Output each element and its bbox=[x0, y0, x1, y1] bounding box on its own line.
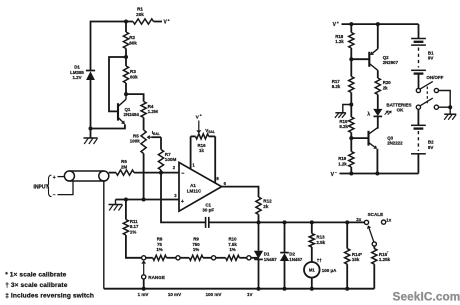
svg-text:2k: 2k bbox=[263, 204, 269, 209]
svg-text:1 mV: 1 mV bbox=[138, 292, 149, 297]
svg-text:−: − bbox=[335, 170, 337, 174]
ground G3 bbox=[335, 112, 346, 114]
wire V- rail bbox=[340, 173, 419, 175]
wire RANGE to bottom rail bbox=[143, 279, 145, 289]
svg-text:−: − bbox=[181, 171, 184, 177]
diode D1 1N457 bbox=[258, 222, 260, 250]
resistor R19 8.2k bbox=[350, 105, 352, 118]
transistor Q3 2N2222 bbox=[367, 131, 369, 146]
wire top rail left bbox=[91, 22, 134, 67]
wire ground stub bbox=[343, 105, 352, 113]
node O D1 on rail bbox=[257, 287, 261, 291]
potentiometer R5 100k IBAL bbox=[141, 130, 146, 154]
wire R5 bottom to noninverting line bbox=[143, 154, 145, 200]
svg-text:10 mV: 10 mV bbox=[168, 292, 181, 297]
svg-text:–: – bbox=[53, 193, 56, 199]
svg-text:+: + bbox=[168, 19, 170, 23]
wire switch commons to ground bbox=[438, 91, 450, 108]
meter M1 100 uA bbox=[304, 262, 320, 278]
LED arrows bbox=[385, 112, 387, 114]
svg-text:††: †† bbox=[317, 258, 322, 263]
wire center conductor bbox=[109, 172, 116, 174]
scale switch blade bbox=[369, 228, 374, 242]
wire R2 to node B bbox=[125, 49, 127, 58]
svg-text:60k: 60k bbox=[130, 75, 138, 80]
svg-text:‡ Includes reversing switch: ‡ Includes reversing switch bbox=[5, 293, 94, 300]
svg-text:60k: 60k bbox=[129, 41, 137, 46]
node I junction D2 bbox=[283, 220, 287, 224]
ground G1 bbox=[84, 137, 98, 139]
node J junction R13 bbox=[310, 220, 314, 224]
node R Q2 emitter top bbox=[376, 22, 380, 26]
svg-text:SeekIC.com: SeekIC.com bbox=[393, 290, 460, 304]
svg-text:1N457: 1N457 bbox=[264, 257, 277, 262]
wire R12 bottom bbox=[258, 215, 260, 223]
node P D2 on rail bbox=[283, 287, 287, 291]
node H junction R12/D1 bbox=[257, 220, 261, 224]
node F junction R11 on pin3 line bbox=[124, 198, 128, 202]
svg-text:1N457: 1N457 bbox=[289, 257, 302, 262]
wire Q1 base loop bbox=[109, 57, 126, 111]
wire node C to R4 bbox=[126, 94, 144, 101]
svg-text:R1: R1 bbox=[137, 7, 143, 12]
balance pot R16 1k bbox=[191, 135, 196, 137]
svg-text:INPUT: INPUT bbox=[34, 184, 49, 190]
pin 8 stub bbox=[214, 136, 216, 183]
wire R6 to inverting input pin 2 bbox=[134, 172, 179, 174]
resistor R17 8.2k bbox=[350, 59, 352, 76]
node S junction R18/R17/Q2 base bbox=[349, 57, 353, 61]
svg-text:A1: A1 bbox=[190, 183, 196, 188]
wire LED to Q3 collector bbox=[376, 127, 378, 130]
svg-text:1%: 1% bbox=[229, 247, 235, 252]
svg-text:R12: R12 bbox=[263, 199, 272, 204]
wire string segment bbox=[146, 257, 153, 259]
SCALE 2x contact bbox=[364, 220, 368, 224]
bottom rail wire bbox=[104, 288, 375, 290]
diode D1 LM385 1.2V zener bbox=[90, 66, 92, 71]
wire R11 to range string bbox=[126, 235, 142, 258]
svg-text:M1: M1 bbox=[309, 268, 315, 273]
svg-text:9V: 9V bbox=[428, 56, 434, 61]
resistor R13 2.5k bbox=[311, 222, 313, 233]
svg-text:1%: 1% bbox=[156, 247, 162, 252]
range tap 1mV contact bbox=[142, 256, 146, 260]
switch S1 pole 2 bbox=[416, 105, 420, 109]
node C junction R3/R4/Q1-collector bbox=[124, 92, 128, 96]
battery B1 9V bbox=[418, 24, 420, 38]
svg-text:† 3× scale calibrate: † 3× scale calibrate bbox=[5, 282, 68, 289]
wire R13 to meter bbox=[311, 247, 313, 262]
wire shield to bottom rail bbox=[103, 181, 105, 289]
node A junction R1/R2 bbox=[124, 20, 128, 24]
wire feedback from inverting node bbox=[161, 173, 206, 223]
svg-text:+: + bbox=[181, 199, 184, 205]
svg-text:1.2M: 1.2M bbox=[148, 109, 158, 114]
wire meter to rail bbox=[311, 278, 313, 289]
range tap 10mV contact bbox=[176, 256, 180, 260]
svg-text:1%: 1% bbox=[193, 247, 199, 252]
RANGE wiper arrow bbox=[143, 264, 145, 275]
range tap 100mV contact bbox=[212, 256, 216, 260]
svg-text:2k: 2k bbox=[383, 85, 388, 90]
svg-text:9V: 9V bbox=[428, 145, 434, 150]
resistor R3 bbox=[125, 57, 127, 66]
wire R15 to rail corner bbox=[373, 264, 375, 289]
svg-text:100 µA: 100 µA bbox=[322, 268, 337, 273]
svg-text:8.2k: 8.2k bbox=[332, 84, 341, 89]
node Q R18 top bbox=[349, 22, 353, 26]
svg-text:1.25k: 1.25k bbox=[379, 257, 391, 262]
node D junction zener/emitter bbox=[89, 127, 93, 131]
svg-text:+: + bbox=[200, 113, 202, 117]
scale wiper pivot bbox=[372, 242, 376, 246]
wire output bbox=[222, 187, 259, 197]
resistor R8 75 1% bbox=[153, 255, 167, 260]
svg-text:1x: 1x bbox=[386, 218, 392, 223]
svg-text:1%: 1% bbox=[130, 229, 136, 234]
svg-text:2N2907: 2N2907 bbox=[383, 60, 399, 65]
wire battery top rail bbox=[342, 23, 419, 25]
svg-text:R13: R13 bbox=[316, 235, 325, 240]
wire Q3 emitter to V- rail bbox=[376, 149, 378, 174]
node W R21 on rail bbox=[349, 172, 353, 176]
wire R11 top lead bbox=[125, 200, 127, 220]
resistor R2 bbox=[123, 32, 128, 49]
wire Q2 emitter to rail bbox=[377, 24, 379, 49]
wire R4 to R5 bbox=[143, 118, 145, 131]
svg-text:100M: 100M bbox=[165, 157, 177, 162]
wire Q1 emitter to ground rail bbox=[91, 124, 125, 128]
RANGE wiper contact bbox=[142, 275, 146, 279]
resistor R7 100M bbox=[158, 150, 163, 171]
switch gang dashed link bbox=[426, 87, 428, 104]
svg-text:SCALE: SCALE bbox=[368, 212, 384, 217]
node B junction R2/R3/Q1-base-loop bbox=[124, 55, 128, 59]
SCALE 1x contact bbox=[382, 220, 386, 224]
svg-text:OK: OK bbox=[397, 108, 405, 113]
svg-text:* 1× scale calibrate: * 1× scale calibrate bbox=[5, 272, 66, 279]
svg-text:100 mV: 100 mV bbox=[206, 292, 222, 297]
resistor R1 bbox=[133, 19, 154, 24]
svg-text:LM11C: LM11C bbox=[187, 189, 202, 194]
svg-text:2M: 2M bbox=[121, 164, 128, 169]
node M meter on rail bbox=[310, 287, 314, 291]
diode D2 1N457 bbox=[284, 222, 286, 252]
resistor R18 1.2k bbox=[350, 24, 352, 32]
resistor R4 bbox=[141, 102, 146, 118]
svg-text:20k: 20k bbox=[136, 12, 144, 17]
op-amp A1 LM11C bbox=[179, 162, 222, 211]
node N R14 on rail bbox=[345, 287, 349, 291]
svg-text:1.2k: 1.2k bbox=[335, 39, 344, 44]
svg-text:R3: R3 bbox=[130, 69, 136, 74]
node U Q3 base bbox=[349, 136, 353, 140]
resistor R12 2k bbox=[256, 197, 261, 215]
capacitor C1 30 pF bbox=[205, 217, 207, 228]
wire input minus to shield bbox=[58, 181, 74, 195]
pin 1 stub bbox=[190, 136, 192, 169]
resistor R14* 15k bbox=[346, 222, 348, 248]
svg-text:2.5k: 2.5k bbox=[316, 240, 325, 245]
wire R5 wiper to R7 bbox=[160, 137, 162, 149]
wire C1 to output node line bbox=[209, 221, 366, 223]
range tap 1V contact bbox=[247, 256, 251, 260]
resistor R20 2k bbox=[375, 78, 380, 95]
node T ground tap bbox=[349, 103, 353, 107]
svg-text:R4: R4 bbox=[148, 104, 154, 109]
wire Q2 collector to R20 bbox=[377, 70, 379, 78]
resistor R15 1.25k bbox=[373, 246, 375, 249]
svg-text:2x: 2x bbox=[356, 217, 362, 222]
wire noninverting line pin 3 bbox=[116, 199, 180, 201]
svg-text:2N2222: 2N2222 bbox=[387, 141, 403, 146]
resistor R10 7.5k 1% bbox=[216, 257, 226, 259]
resistor R11 8.17 1% bbox=[123, 220, 128, 236]
svg-text:ON/OFF: ON/OFF bbox=[426, 75, 443, 80]
resistor R6 2M bbox=[116, 170, 134, 175]
svg-text:R2: R2 bbox=[129, 35, 135, 40]
svg-text:8.2k: 8.2k bbox=[339, 124, 348, 129]
wire 1V tap to D1 cathode bbox=[251, 257, 259, 259]
svg-text:†: † bbox=[387, 251, 389, 255]
svg-text:+: + bbox=[337, 21, 339, 25]
LED battery indicator bbox=[373, 109, 382, 116]
svg-text:1V: 1V bbox=[247, 292, 253, 297]
wire Q2 base bbox=[351, 58, 368, 60]
switch S1 pole 1 bbox=[416, 88, 420, 92]
svg-text:2N2484: 2N2484 bbox=[124, 112, 140, 117]
svg-text:1.2k: 1.2k bbox=[338, 162, 347, 167]
ground G2 at input bbox=[115, 200, 117, 205]
input coax cable bbox=[64, 171, 74, 181]
node K junction R14 bbox=[345, 220, 349, 224]
VBAL arrow to wiper bbox=[198, 121, 200, 131]
svg-text:30 pF: 30 pF bbox=[202, 208, 214, 213]
svg-text:R7: R7 bbox=[165, 152, 171, 157]
node V Q3 emitter on rail bbox=[375, 172, 379, 176]
node G junction R5 on pin3 line bbox=[142, 198, 146, 202]
wire R2 top lead bbox=[125, 22, 127, 33]
node E junction R7/feedback on input line bbox=[159, 171, 163, 175]
input brace bbox=[47, 175, 52, 197]
ground G4 switch bbox=[444, 113, 456, 115]
svg-text:R5: R5 bbox=[133, 133, 139, 138]
svg-text:1.2V: 1.2V bbox=[72, 75, 81, 80]
svg-text:+: + bbox=[53, 175, 56, 181]
svg-text:1k: 1k bbox=[199, 148, 204, 153]
wire Q3 base bbox=[351, 137, 367, 139]
transistor Q1 2N2484 bbox=[117, 103, 119, 120]
svg-text:100k: 100k bbox=[130, 139, 141, 144]
svg-text:λ: λ bbox=[367, 111, 370, 117]
resistor R21 1.2k bbox=[350, 138, 352, 151]
svg-text:15k: 15k bbox=[352, 257, 360, 262]
svg-text:BATTERIES: BATTERIES bbox=[386, 102, 411, 107]
svg-text:R19: R19 bbox=[338, 156, 347, 161]
node L range wiper on rail bbox=[142, 287, 146, 291]
battery B2 9V bbox=[417, 109, 419, 125]
resistor R9 750 1% bbox=[180, 257, 189, 259]
transistor Q2 2N2907 bbox=[368, 52, 370, 67]
svg-text:RANGE: RANGE bbox=[148, 275, 165, 280]
